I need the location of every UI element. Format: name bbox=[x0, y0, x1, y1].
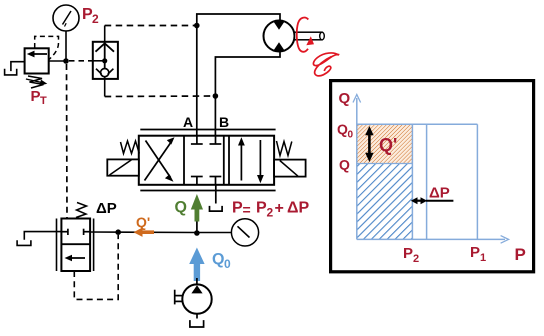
wire: check valve top stub bbox=[104, 26, 106, 42]
flow arrow Q' (orange) bbox=[134, 228, 155, 237]
svg-text:2: 2 bbox=[92, 12, 99, 26]
compensator flow arrow bbox=[65, 255, 86, 262]
graph frame bbox=[331, 81, 534, 272]
label Q' graph bbox=[379, 135, 397, 155]
tank symbol (pump) bbox=[190, 320, 204, 327]
Y axis Q bbox=[353, 95, 361, 240]
graph line at Q bbox=[357, 163, 413, 165]
svg-text:0: 0 bbox=[224, 257, 231, 271]
graph rectangle P1-Q0 bbox=[357, 124, 478, 239]
wire: B-line valve to motor bbox=[215, 52, 280, 136]
directional valve proportional top line bbox=[140, 129, 275, 131]
label dP graph bbox=[429, 185, 450, 202]
node: dot pilot tap bbox=[115, 229, 121, 235]
svg-text:0: 0 bbox=[348, 130, 354, 141]
wire: relief valve outlet to junction bbox=[49, 60, 66, 62]
hydraulic motor bbox=[264, 21, 295, 52]
valve left cell crossed arrows bbox=[145, 137, 175, 182]
X axis P bbox=[357, 236, 509, 244]
spring left bbox=[121, 141, 140, 154]
svg-text:P: P bbox=[403, 245, 413, 262]
svg-text:=: = bbox=[243, 202, 251, 218]
node: dot on A-line bbox=[194, 23, 200, 29]
svg-text:ΔP: ΔP bbox=[96, 200, 117, 217]
relief valve spring bbox=[28, 76, 44, 88]
graph vertical line P2 bbox=[411, 124, 413, 239]
svg-text:1: 1 bbox=[480, 252, 486, 264]
label Q axis bbox=[339, 90, 351, 107]
flow arrow Q0 (blue) bbox=[189, 248, 204, 282]
label Q (green) bbox=[175, 199, 187, 216]
orange hatched area Q' bbox=[358, 125, 413, 164]
svg-text:2: 2 bbox=[413, 253, 419, 265]
wire: check valve bottom stub bbox=[104, 79, 106, 97]
dP leader line bbox=[426, 200, 453, 202]
node: main lower junction bbox=[194, 230, 200, 236]
directional valve body bbox=[139, 136, 274, 185]
svg-text:P: P bbox=[515, 245, 526, 264]
svg-text:Q: Q bbox=[212, 251, 224, 268]
wire: P-port to junction bbox=[196, 210, 198, 233]
wire: dashed pilot down to compensator bbox=[66, 64, 69, 218]
tank symbol (valve T port) bbox=[210, 206, 223, 211]
solenoid left bbox=[107, 159, 139, 175]
svg-text:Q: Q bbox=[337, 121, 348, 137]
pressure gauge lower bbox=[231, 219, 258, 246]
blue hatched area bbox=[358, 164, 413, 240]
svg-text:P: P bbox=[232, 200, 243, 217]
label Q0 axis bbox=[337, 121, 354, 141]
label Q' (orange) bbox=[136, 214, 150, 230]
pressure gauge P2 bbox=[53, 5, 79, 31]
directional valve proportional bottom line bbox=[140, 190, 275, 192]
wire: A-line valve to motor bbox=[197, 14, 280, 136]
svg-text:Q: Q bbox=[339, 157, 350, 173]
label P2 bbox=[82, 6, 99, 26]
motor shaft bbox=[295, 32, 325, 40]
wire: T-port line to tank bbox=[215, 185, 217, 204]
svg-text:A: A bbox=[183, 114, 193, 130]
svg-text:2: 2 bbox=[267, 206, 274, 220]
label P1 axis bbox=[470, 244, 486, 264]
svg-text:+: + bbox=[275, 200, 284, 217]
valve right cell parallel arrows bbox=[238, 137, 264, 183]
relief valve body bbox=[25, 48, 49, 73]
spring right bbox=[277, 141, 292, 156]
wire: gauge P2 drop line bbox=[65, 31, 67, 61]
wire: relief valve tank line bbox=[11, 62, 25, 71]
label A bbox=[183, 114, 193, 130]
wire: pump tank stub bbox=[196, 314, 198, 319]
svg-text:Q: Q bbox=[175, 199, 187, 216]
node: main P2 junction bbox=[63, 58, 69, 64]
tank symbol (compensator) bbox=[17, 240, 31, 245]
svg-text:Q: Q bbox=[339, 90, 351, 107]
label B bbox=[219, 114, 229, 130]
compensator blocked ports bbox=[61, 229, 90, 235]
label dP (black) bbox=[96, 200, 117, 217]
valve centre cell blocked ports bbox=[191, 136, 221, 185]
torque label C (script) bbox=[313, 53, 339, 76]
svg-text:ΔP: ΔP bbox=[429, 185, 450, 202]
svg-text:P: P bbox=[31, 88, 41, 105]
node: dot on B-line bbox=[213, 93, 219, 99]
compensator side lines bbox=[57, 219, 94, 272]
label P axis bbox=[515, 245, 526, 264]
tank symbol (relief valve) bbox=[5, 69, 17, 75]
wire: dashed bottom bridge to B-line bbox=[105, 95, 216, 98]
label PT bbox=[31, 88, 48, 107]
wire: compensator inlet from tank bbox=[24, 232, 61, 240]
wire: compensator outlet to junction bbox=[90, 231, 197, 234]
svg-text:T: T bbox=[40, 95, 47, 107]
relief valve adjust arrow bbox=[26, 79, 47, 86]
label Q0 (blue) bbox=[212, 251, 231, 271]
label P2 axis bbox=[403, 245, 419, 265]
pump bbox=[182, 284, 211, 313]
wire: compensator dashed pilot loop bbox=[74, 235, 118, 299]
dP double arrow bbox=[411, 197, 427, 204]
svg-text:P: P bbox=[256, 200, 267, 217]
compensator spring bbox=[76, 203, 87, 218]
solenoid right bbox=[274, 160, 306, 177]
label Q lower axis bbox=[339, 157, 350, 173]
flow arrow Q (green) bbox=[191, 194, 203, 222]
wire: dashed junction to check valve bbox=[69, 60, 93, 62]
pump shaft bbox=[175, 290, 183, 305]
rotation arrow (red) bbox=[297, 18, 314, 52]
svg-text:P: P bbox=[470, 244, 480, 261]
wire: junction to gauge bbox=[197, 232, 232, 234]
svg-text:Q': Q' bbox=[379, 135, 397, 155]
wire: relief valve dashed pilot loop bbox=[35, 36, 59, 59]
compensator body bbox=[61, 219, 90, 272]
svg-text:Q': Q' bbox=[136, 214, 150, 230]
svg-text:ΔP: ΔP bbox=[287, 200, 310, 217]
graph vertical line P bbox=[426, 124, 428, 239]
wire: dashed top bridge to A-line bbox=[105, 25, 197, 27]
label P = P2 + dP (red) bbox=[232, 200, 310, 220]
Q' double arrow bbox=[365, 126, 373, 162]
check valve body bbox=[93, 42, 118, 79]
wire: inside check valve to node bbox=[93, 60, 105, 62]
svg-text:B: B bbox=[219, 114, 229, 130]
node: check valve center bbox=[102, 58, 107, 63]
wire: pump to junction bbox=[196, 278, 198, 284]
